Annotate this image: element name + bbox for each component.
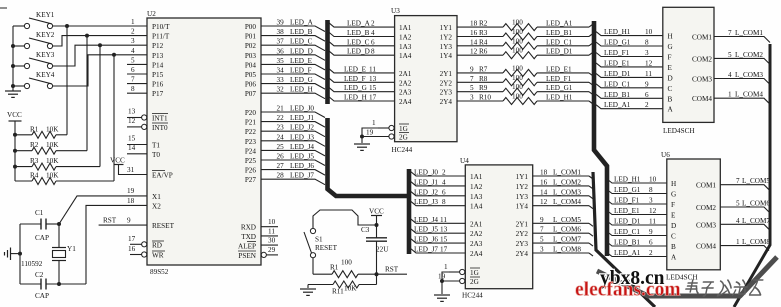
svg-text:4: 4 xyxy=(371,29,375,37)
wire VCC to EA pin xyxy=(119,165,148,175)
svg-text:HC244: HC244 xyxy=(392,146,413,154)
wire RST to RESET pin xyxy=(99,224,147,226)
svg-text:15: 15 xyxy=(440,236,448,244)
wire R1 pullup tap xyxy=(66,26,68,135)
svg-text:2: 2 xyxy=(131,28,135,36)
svg-text:P00: P00 xyxy=(245,23,257,31)
wire P22 LED_J2 xyxy=(261,131,325,137)
wire pin8 stub xyxy=(127,92,147,94)
wire P01 LED_B xyxy=(261,36,325,42)
svg-text:2G: 2G xyxy=(399,134,408,142)
svg-text:L_COM6: L_COM6 xyxy=(742,200,770,208)
svg-text:22: 22 xyxy=(277,114,285,122)
wire bus to U4 2A1 xyxy=(410,218,465,223)
svg-text:P17: P17 xyxy=(152,90,164,98)
svg-text:R3: R3 xyxy=(479,29,488,37)
svg-text:33: 33 xyxy=(277,76,285,84)
bus U4 feed vertical xyxy=(407,169,412,254)
svg-text:P04: P04 xyxy=(245,61,257,69)
svg-text:2A4: 2A4 xyxy=(399,98,412,106)
svg-text:R11: R11 xyxy=(332,288,344,296)
svg-text:WR: WR xyxy=(152,252,164,260)
wire U4 out L_COM3 xyxy=(533,195,589,197)
svg-text:11: 11 xyxy=(268,228,275,236)
svg-text:COM2: COM2 xyxy=(696,204,716,212)
svg-text:R3: R3 xyxy=(30,157,39,165)
svg-text:D: D xyxy=(671,222,676,230)
svg-text:9: 9 xyxy=(645,80,649,88)
svg-text:7: 7 xyxy=(540,226,544,234)
svg-text:P01: P01 xyxy=(245,33,257,41)
bus L_COM collector xyxy=(593,172,655,307)
svg-text:P02: P02 xyxy=(245,42,257,50)
svg-text:H: H xyxy=(671,180,676,188)
wire pin5 stub xyxy=(127,63,147,65)
svg-text:LED_A: LED_A xyxy=(290,19,314,27)
svg-text:D: D xyxy=(668,74,673,82)
svg-text:35: 35 xyxy=(277,57,285,65)
svg-text:1A4: 1A4 xyxy=(470,203,483,211)
svg-text:R2: R2 xyxy=(30,141,39,149)
svg-text:VCC: VCC xyxy=(110,157,125,165)
svg-text:LED_A1: LED_A1 xyxy=(614,249,641,257)
svg-text:2Y2: 2Y2 xyxy=(516,230,529,238)
svg-text:L_COM4: L_COM4 xyxy=(735,91,763,99)
svg-text:LED_A: LED_A xyxy=(347,20,371,28)
wire U6 COM6 xyxy=(720,207,769,212)
svg-text:8: 8 xyxy=(131,85,135,93)
svg-text:39: 39 xyxy=(277,19,285,27)
wire P24 LED_J4 xyxy=(261,150,325,156)
wire bus to U6 G xyxy=(607,190,667,194)
svg-text:R4: R4 xyxy=(30,172,39,180)
pin INT1 stub xyxy=(127,117,142,119)
svg-text:9: 9 xyxy=(127,217,131,225)
wire bus to U6 F xyxy=(607,200,667,204)
svg-text:A: A xyxy=(668,106,674,114)
svg-text:100: 100 xyxy=(341,259,352,267)
svg-text:8: 8 xyxy=(649,186,653,194)
svg-text:6: 6 xyxy=(649,239,653,247)
svg-text:F: F xyxy=(671,201,675,209)
wire R2 pullup tap xyxy=(86,36,88,151)
buffer U4 body xyxy=(465,165,532,289)
svg-text:2Y1: 2Y1 xyxy=(516,220,529,228)
wire bus to U3 1A1 xyxy=(328,22,395,27)
svg-text:L_COM1: L_COM1 xyxy=(735,29,763,37)
svg-text:23: 23 xyxy=(277,124,285,132)
svg-text:1A1: 1A1 xyxy=(470,173,483,181)
svg-text:COM3: COM3 xyxy=(696,221,716,229)
svg-text:LED_J7: LED_J7 xyxy=(414,246,438,254)
svg-text:6: 6 xyxy=(371,38,375,46)
wire bus to U3 2A3 xyxy=(328,87,395,92)
svg-text:INT1: INT1 xyxy=(152,115,168,123)
svg-text:LED_J3: LED_J3 xyxy=(290,133,314,141)
svg-text:LED_E1: LED_E1 xyxy=(614,207,640,215)
svg-text:1Y4: 1Y4 xyxy=(516,203,529,211)
junction key rail KEY3 xyxy=(11,64,15,68)
svg-text:34: 34 xyxy=(277,67,285,75)
svg-text:10: 10 xyxy=(268,218,276,226)
svg-text:3: 3 xyxy=(649,197,653,205)
svg-text:LED_C1: LED_C1 xyxy=(614,228,640,236)
wire C3 to RST xyxy=(376,241,378,284)
svg-text:P25: P25 xyxy=(245,157,257,165)
svg-text:28: 28 xyxy=(277,172,285,180)
svg-text:10: 10 xyxy=(645,28,653,36)
svg-text:36: 36 xyxy=(277,47,285,55)
svg-text:LED_F: LED_F xyxy=(290,67,312,75)
bus COM right xyxy=(734,44,770,307)
svg-text:LED_J6: LED_J6 xyxy=(414,236,438,244)
svg-text:LED_J7: LED_J7 xyxy=(290,172,314,180)
svg-text:LED_C1: LED_C1 xyxy=(546,38,572,46)
svg-text:E: E xyxy=(671,212,676,220)
svg-text:2A1: 2A1 xyxy=(399,70,412,78)
svg-text:Y1: Y1 xyxy=(67,245,76,253)
svg-text:2Y3: 2Y3 xyxy=(440,89,453,97)
wire U4 out L_COM6 xyxy=(533,232,589,234)
svg-text:R1: R1 xyxy=(330,264,339,272)
svg-text:LED_C: LED_C xyxy=(347,38,370,46)
svg-text:INT0: INT0 xyxy=(152,124,168,132)
svg-text:26: 26 xyxy=(277,153,285,161)
pin T1 stub xyxy=(127,144,147,146)
svg-text:1Y1: 1Y1 xyxy=(440,24,453,32)
svg-text:10K: 10K xyxy=(46,172,59,180)
svg-text:B: B xyxy=(668,95,673,103)
wire U5 COM3 xyxy=(714,79,770,85)
svg-text:30: 30 xyxy=(268,237,276,245)
switch KEY2 xyxy=(13,31,55,49)
svg-text:R8: R8 xyxy=(479,75,488,83)
svg-text:LED_H: LED_H xyxy=(290,86,313,94)
wire U3 G to ground xyxy=(362,128,378,143)
svg-text:12: 12 xyxy=(540,198,548,206)
wire X2 to MCU xyxy=(86,205,147,284)
resistor Rrst2 10K xyxy=(308,281,377,296)
svg-text:14: 14 xyxy=(128,144,136,152)
svg-text:LED_H1: LED_H1 xyxy=(546,94,573,102)
svg-text:L_COM4: L_COM4 xyxy=(553,198,581,206)
svg-text:L_COM2: L_COM2 xyxy=(735,51,763,59)
svg-text:9: 9 xyxy=(470,65,474,73)
svg-text:2Y3: 2Y3 xyxy=(516,240,529,248)
svg-text:LED_G1: LED_G1 xyxy=(614,186,641,194)
svg-text:1A3: 1A3 xyxy=(399,43,412,51)
svg-text:RST: RST xyxy=(103,217,117,225)
wire U4 out L_COM7 xyxy=(533,242,589,244)
wire left key common rail xyxy=(12,26,14,91)
svg-text:17: 17 xyxy=(128,235,136,243)
svg-text:18: 18 xyxy=(470,20,478,28)
wire P20 LED_J0 xyxy=(261,112,325,118)
svg-text:1: 1 xyxy=(372,119,376,127)
svg-text:9: 9 xyxy=(649,228,653,236)
svg-text:2: 2 xyxy=(442,169,446,177)
capacitor C3 22U xyxy=(361,226,389,254)
svg-text:LED_G: LED_G xyxy=(344,84,367,92)
svg-text:COM4: COM4 xyxy=(696,243,716,251)
svg-text:LED_H1: LED_H1 xyxy=(604,28,631,36)
svg-text:LED_B1: LED_B1 xyxy=(604,91,630,99)
wire U4 out L_COM8 xyxy=(533,252,589,254)
svg-text:RXD: RXD xyxy=(241,224,256,232)
border tick top-left xyxy=(0,7,7,9)
svg-text:C: C xyxy=(671,233,676,241)
junction RST node xyxy=(375,272,379,276)
U3 pin 2G bubble xyxy=(362,136,389,138)
svg-text:L_COM5: L_COM5 xyxy=(742,177,770,185)
svg-text:U4: U4 xyxy=(460,157,469,165)
svg-text:L_COM6: L_COM6 xyxy=(553,226,581,234)
svg-text:2Y2: 2Y2 xyxy=(440,79,453,87)
wire VCC rail xyxy=(14,121,16,181)
wire bus to U5 A xyxy=(596,105,663,109)
svg-text:1Y2: 1Y2 xyxy=(516,183,529,191)
svg-text:1G: 1G xyxy=(470,269,479,277)
wire bus to U4 2A3 xyxy=(410,238,465,243)
svg-text:22U: 22U xyxy=(376,246,389,254)
svg-text:LED_J0: LED_J0 xyxy=(414,169,438,177)
wire bus to U6 E xyxy=(607,211,667,215)
wire U5 COM1 xyxy=(714,37,770,43)
wire VCC to C3 xyxy=(376,216,378,238)
svg-text:P21: P21 xyxy=(245,119,257,127)
svg-text:1: 1 xyxy=(444,263,448,271)
wire U4 out L_COM4 xyxy=(533,205,589,207)
svg-text:L_COM8: L_COM8 xyxy=(742,238,770,246)
wire bus to U5 F xyxy=(596,53,663,57)
svg-text:LED_D: LED_D xyxy=(290,47,313,55)
wire bus to U4 1A4 xyxy=(410,201,465,206)
svg-text:17: 17 xyxy=(440,246,448,254)
svg-text:C2: C2 xyxy=(35,271,44,279)
wire bus to U3 1A4 xyxy=(328,50,395,55)
svg-text:6: 6 xyxy=(645,91,649,99)
svg-text:2A2: 2A2 xyxy=(470,230,483,238)
watermark swoosh xyxy=(597,257,777,296)
svg-text:8: 8 xyxy=(442,198,446,206)
svg-text:P13: P13 xyxy=(152,52,164,60)
wire P27 LED_J7 xyxy=(261,179,325,185)
svg-text:5: 5 xyxy=(131,56,135,64)
wire KEY3 to pin3 xyxy=(53,45,148,66)
svg-text:89S52: 89S52 xyxy=(150,268,169,276)
svg-text:4: 4 xyxy=(131,47,135,55)
svg-text:P16: P16 xyxy=(152,81,164,89)
svg-text:6: 6 xyxy=(131,66,135,74)
wire KEY1 to pin1 xyxy=(53,25,148,27)
svg-text:12: 12 xyxy=(649,207,657,215)
svg-text:1A2: 1A2 xyxy=(399,34,412,42)
svg-text:10: 10 xyxy=(649,176,657,184)
wire bus to U5 G xyxy=(596,42,663,46)
svg-text:2Y4: 2Y4 xyxy=(516,250,529,258)
op-amp U2 89S52 body xyxy=(147,18,261,265)
svg-text:LED_J2: LED_J2 xyxy=(414,188,438,196)
svg-text:S1: S1 xyxy=(315,236,323,244)
svg-text:LED_B: LED_B xyxy=(347,29,370,37)
svg-text:2Y1: 2Y1 xyxy=(440,70,453,78)
svg-text:27: 27 xyxy=(277,162,285,170)
svg-text:P14: P14 xyxy=(152,61,164,69)
U4 pin 1G bubble xyxy=(449,271,460,273)
svg-text:PSEN: PSEN xyxy=(238,252,256,260)
svg-text:1A4: 1A4 xyxy=(399,52,412,60)
svg-text:HC244: HC244 xyxy=(462,292,483,300)
svg-text:G: G xyxy=(671,191,676,199)
svg-text:KEY2: KEY2 xyxy=(36,31,55,39)
svg-text:4: 4 xyxy=(736,217,740,225)
svg-text:10K: 10K xyxy=(46,125,59,133)
svg-text:LED_J4: LED_J4 xyxy=(414,216,438,224)
svg-text:3: 3 xyxy=(540,246,544,254)
svg-text:VCC: VCC xyxy=(7,111,22,119)
wire bus to U4 2A4 xyxy=(410,248,465,253)
wire bus to U4 1A2 xyxy=(410,181,465,186)
svg-text:LED_D1: LED_D1 xyxy=(546,48,573,56)
svg-text:5: 5 xyxy=(470,84,474,92)
svg-text:R1: R1 xyxy=(30,125,39,133)
svg-text:18: 18 xyxy=(127,197,135,205)
svg-text:P15: P15 xyxy=(152,71,164,79)
svg-text:X2: X2 xyxy=(152,203,161,211)
svg-text:LED_F1: LED_F1 xyxy=(546,75,572,83)
wire U5 COM4 xyxy=(714,98,770,104)
svg-text:LED_J0: LED_J0 xyxy=(290,105,314,113)
svg-text:2A4: 2A4 xyxy=(470,250,483,258)
junction U4 2G xyxy=(440,279,444,283)
junction R1 tap xyxy=(65,24,69,28)
buffer U3 body xyxy=(395,16,457,142)
svg-text:1Y3: 1Y3 xyxy=(516,193,529,201)
svg-text:L_COM7: L_COM7 xyxy=(553,236,581,244)
svg-text:12: 12 xyxy=(128,117,136,125)
svg-text:LED_A1: LED_A1 xyxy=(546,20,573,28)
svg-text:R6: R6 xyxy=(479,48,488,56)
svg-text:TXD: TXD xyxy=(241,233,256,241)
wire U4 G to ground xyxy=(442,272,449,294)
wire R4 pullup tap xyxy=(113,55,115,181)
resistor Rrst 100 xyxy=(313,259,407,278)
display U5 body xyxy=(663,7,714,122)
svg-text:12: 12 xyxy=(470,48,478,56)
svg-text:37: 37 xyxy=(277,38,285,46)
wire U4 out L_COM5 xyxy=(533,222,589,224)
svg-text:25: 25 xyxy=(277,143,285,151)
resistor R6 100 segment D xyxy=(457,47,593,59)
wire KEY2 to pin2 xyxy=(53,36,148,46)
svg-text:LED_F1: LED_F1 xyxy=(614,197,640,205)
svg-text:3: 3 xyxy=(131,37,135,45)
svg-text:LED_J3: LED_J3 xyxy=(414,198,438,206)
svg-text:R9: R9 xyxy=(479,84,488,92)
svg-text:LED_F1: LED_F1 xyxy=(604,49,630,57)
svg-text:100: 100 xyxy=(512,64,523,72)
resistor R2 100 segment A xyxy=(457,19,593,31)
svg-text:COM1: COM1 xyxy=(696,182,716,190)
pin T0 stub xyxy=(127,153,147,155)
svg-text:R2: R2 xyxy=(479,20,488,28)
resistor R4 10K xyxy=(15,172,114,185)
svg-text:2A3: 2A3 xyxy=(470,240,483,248)
wire KEY4 to pin4 xyxy=(53,55,148,86)
ground reset xyxy=(300,288,316,290)
svg-text:1Y4: 1Y4 xyxy=(440,52,453,60)
svg-text:L_COM2: L_COM2 xyxy=(553,178,581,186)
svg-text:LED_D: LED_D xyxy=(347,48,370,56)
svg-text:VCC: VCC xyxy=(369,208,384,216)
svg-text:LED_C: LED_C xyxy=(290,38,313,46)
wire bus to U3 2A2 xyxy=(328,77,395,82)
resistor R2 10K xyxy=(15,141,87,154)
svg-text:LED_B1: LED_B1 xyxy=(546,29,572,37)
wire P05 LED_F xyxy=(261,74,325,80)
svg-text:2A3: 2A3 xyxy=(399,89,412,97)
svg-text:1Y2: 1Y2 xyxy=(440,34,453,42)
svg-text:15: 15 xyxy=(369,84,377,92)
wire bus to U6 B xyxy=(607,242,667,246)
svg-text:1A2: 1A2 xyxy=(470,183,483,191)
switch KEY1 xyxy=(13,11,55,29)
junction key rail KEY4 xyxy=(11,84,15,88)
wire bus to U3 1A2 xyxy=(328,32,395,37)
junction key rail KEY2 xyxy=(11,44,15,48)
svg-text:U6: U6 xyxy=(661,151,670,159)
svg-text:17: 17 xyxy=(369,94,377,102)
svg-text:C: C xyxy=(668,85,673,93)
pin RXD stub xyxy=(261,226,278,228)
svg-text:14: 14 xyxy=(540,188,548,196)
wire P07 LED_H xyxy=(261,93,325,99)
svg-text:2Y4: 2Y4 xyxy=(440,98,453,106)
svg-text:2A2: 2A2 xyxy=(399,79,412,87)
wire U6 COM8 xyxy=(720,246,769,251)
svg-text:P12: P12 xyxy=(152,42,164,50)
svg-text:14: 14 xyxy=(470,38,478,46)
wire P26 LED_J6 xyxy=(261,170,325,176)
svg-text:3: 3 xyxy=(645,49,649,57)
svg-text:LED_C1: LED_C1 xyxy=(604,80,630,88)
svg-text:1A1: 1A1 xyxy=(399,24,412,32)
svg-text:P22: P22 xyxy=(245,128,257,136)
wire bus to U3 2A1 xyxy=(328,68,395,73)
bus P0 vertical xyxy=(325,20,330,104)
U4 pin 2G bubble xyxy=(442,280,460,282)
svg-text:P07: P07 xyxy=(245,90,257,98)
junction R4 tap xyxy=(112,53,116,57)
wire R3 pullup tap xyxy=(99,45,101,166)
svg-text:P26: P26 xyxy=(245,167,257,175)
svg-text:P05: P05 xyxy=(245,71,257,79)
bus P2 vertical xyxy=(328,118,408,196)
svg-text:B: B xyxy=(671,243,676,251)
wire bus to U6 A xyxy=(607,253,667,257)
svg-text:LED_G1: LED_G1 xyxy=(546,84,573,92)
svg-text:LED_F: LED_F xyxy=(344,75,366,83)
wire pin6 stub xyxy=(127,73,147,75)
svg-text:LED_E1: LED_E1 xyxy=(604,59,630,67)
svg-text:T1: T1 xyxy=(152,142,160,150)
svg-text:38: 38 xyxy=(277,28,285,36)
ground U4 enables xyxy=(434,294,450,296)
wire U5 COM2 xyxy=(714,58,770,64)
wire bus to U6 H xyxy=(607,179,667,183)
svg-text:12: 12 xyxy=(645,59,653,67)
svg-text:16: 16 xyxy=(128,245,136,253)
